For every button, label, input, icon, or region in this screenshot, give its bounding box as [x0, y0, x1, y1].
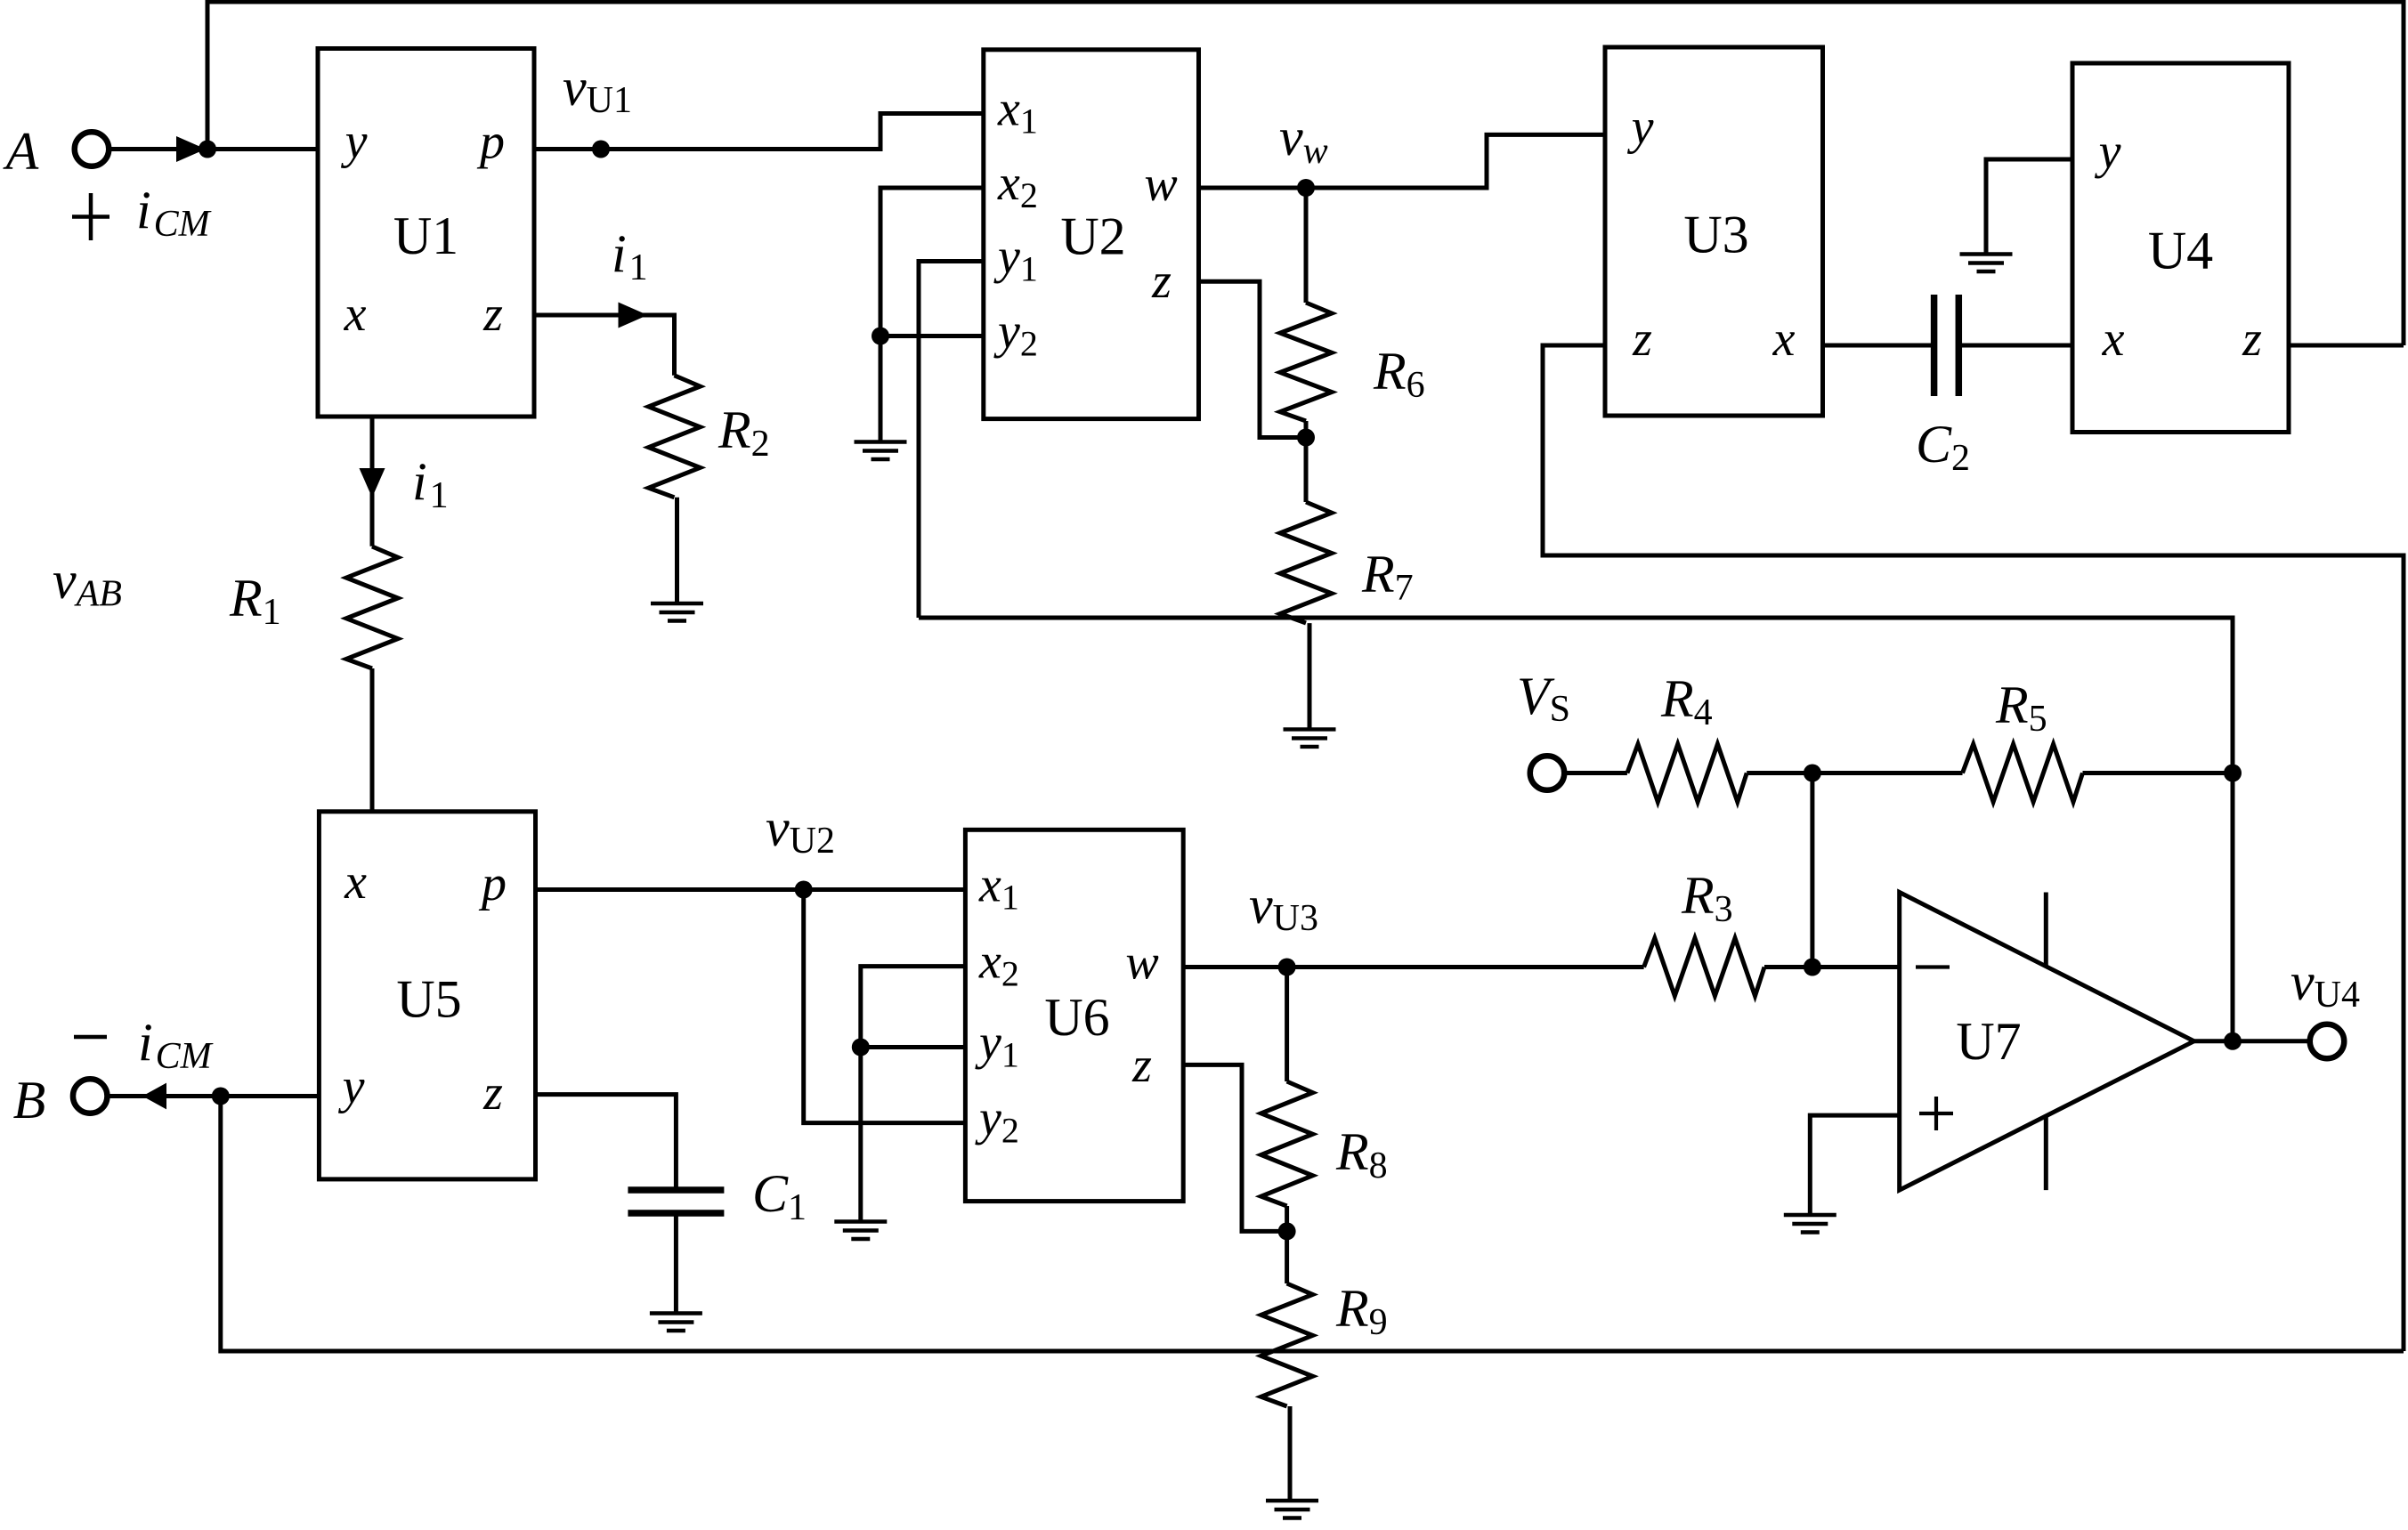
terminal B: [73, 1079, 108, 1113]
svg-text:U1: U1: [393, 206, 458, 265]
node vU2 junction dot: [795, 881, 813, 899]
wire U2 pin x2 to ground stem: [880, 188, 984, 442]
wire C1 to ground: [674, 1213, 678, 1314]
wire R4 to R4/R5 node: [1747, 771, 1812, 775]
wire U2 pin w to U3 pin y (node vw): [1199, 134, 1606, 188]
svg-text:x: x: [2102, 312, 2125, 367]
ground under R7: [1284, 729, 1336, 747]
resistor R8: [1261, 1081, 1313, 1206]
node R8/R9/U6z junction dot: [1278, 1222, 1296, 1240]
resistor R2: [649, 376, 701, 498]
wire U6 pin w to op-amp U7 inverting input (node vU3): [1183, 965, 1643, 969]
ground under U6 x2/y1: [834, 1222, 887, 1240]
wire junction to resistor R7: [1304, 438, 1309, 503]
svg-text:x: x: [1772, 312, 1796, 367]
ground under R9: [1266, 1501, 1318, 1518]
wire U3 pin x to capacitor C2: [1823, 344, 1934, 348]
ground under U7 non-inverting input: [1784, 1215, 1836, 1233]
wire U4 pin y to ground: [1986, 159, 2072, 255]
svg-text:U5: U5: [396, 969, 461, 1028]
svg-text:p: p: [478, 856, 507, 911]
wire U6 pin x2 to ground stem: [861, 967, 966, 1222]
node U6 y1/x2 junction dot: [852, 1039, 870, 1056]
node vU3 junction dot: [1278, 959, 1296, 976]
svg-text:x: x: [344, 287, 367, 342]
svg-text:y: y: [341, 114, 368, 169]
wire R4/R5 node to resistor R5: [1812, 771, 1963, 775]
node B junction dot: [212, 1088, 230, 1105]
wire R5 to feedback node: [2083, 771, 2234, 775]
op-amp block U1: [318, 49, 534, 417]
resistor R5: [1963, 744, 2083, 802]
resistor R6: [1280, 303, 1332, 421]
svg-text:z: z: [482, 1065, 503, 1121]
svg-text:z: z: [1632, 312, 1652, 367]
wire vU3 down to resistor R8: [1285, 967, 1289, 1082]
wire U1 pin z to resistor R2: [534, 315, 675, 376]
capacitor C2: [1934, 295, 1959, 396]
wire R2 to ground: [675, 498, 679, 603]
svg-text:U3: U3: [1683, 206, 1748, 264]
resistor R3: [1644, 938, 1764, 996]
wire U7 non-inverting input to ground: [1810, 1115, 1899, 1215]
wire R4/R5 node down to inverting input node: [1810, 773, 1814, 967]
wire R6 to junction with R7: [1304, 421, 1309, 438]
wire U1 pin x down to resistor R1: [370, 417, 375, 546]
wire U1 pin p to U2 pin x1 (node vU1): [534, 114, 984, 150]
wire R8 to R8/R9 junction: [1285, 1206, 1289, 1231]
svg-text:y: y: [2095, 125, 2121, 180]
op-amp block U3: [1605, 47, 1823, 416]
wire U6 pin y1 to ground stem: [861, 1045, 966, 1049]
node R6/R7/U2z junction dot: [1297, 429, 1315, 447]
wire U7 output to terminal vU4: [2194, 1039, 2310, 1043]
svg-text:z: z: [2242, 312, 2262, 367]
wire vw down to resistor R6: [1304, 188, 1309, 303]
svg-text:B: B: [13, 1071, 46, 1129]
svg-text:U7: U7: [1956, 1012, 2021, 1071]
svg-text:w: w: [1144, 157, 1177, 212]
label plus sign of vAB: [72, 193, 109, 240]
op-amp block U5: [319, 812, 535, 1179]
wire junction to resistor R9: [1285, 1231, 1289, 1283]
wire U5 pin z to capacitor C1: [536, 1095, 677, 1190]
node vw junction dot: [1297, 179, 1315, 197]
ground under R2: [651, 603, 703, 621]
op-amp block U4: [2072, 63, 2289, 433]
svg-text:A: A: [3, 122, 39, 181]
wire B junction down to bottom bus: [221, 1097, 2404, 1352]
svg-text:x: x: [344, 854, 367, 910]
terminal A: [75, 132, 109, 166]
arrow current iCM into U1: [176, 136, 206, 162]
svg-text:z: z: [1131, 1038, 1152, 1093]
op-amp block U6: [965, 830, 1183, 1201]
node A junction dot: [199, 141, 216, 158]
arrow current iCM out to B: [142, 1083, 166, 1110]
svg-text:z: z: [482, 287, 503, 342]
wire long feedback line to R5 right node: [919, 618, 2233, 1041]
arrow current i1 through z: [619, 303, 648, 328]
resistor R7: [1280, 502, 1332, 623]
wire R7 to ground: [1308, 623, 1312, 729]
terminal VS: [1530, 756, 1565, 790]
resistor R4: [1627, 744, 1747, 802]
op-amp U7 positive power pin: [2044, 893, 2048, 967]
svg-text:y: y: [338, 1059, 365, 1114]
svg-text:U6: U6: [1044, 988, 1109, 1047]
op-amp U7 negative power pin: [2044, 1116, 2048, 1190]
wire U2 pin y2 to ground stem: [880, 334, 984, 338]
wire U6 pin y2 to node vU2: [804, 890, 966, 1123]
wire R3 to U7 inverting input: [1764, 965, 1900, 969]
wire R1 to U5 pin x (top): [370, 668, 375, 812]
wire U5 pin y to terminal B: [108, 1094, 320, 1098]
arrow current i1 down: [360, 468, 385, 498]
label minus sign of vAB: [74, 1035, 107, 1040]
wire terminal A to U1 pin y: [109, 147, 319, 151]
resistor R9: [1261, 1283, 1313, 1406]
svg-text:p: p: [476, 115, 505, 170]
wire U6 pin z to R8/R9 junction: [1183, 1065, 1286, 1231]
wire VS to resistor R4: [1564, 771, 1627, 775]
wire U5 pin p to U6 pin x1 (node vU2): [536, 887, 966, 892]
ground under C1: [650, 1314, 702, 1332]
node R5/feedback junction dot: [2224, 765, 2242, 782]
op-amp U7 triangle: [1900, 893, 2194, 1191]
wire C2 to U4 pin x: [1958, 344, 2072, 348]
node U2 y2/x2 junction dot: [872, 328, 889, 345]
svg-text:z: z: [1151, 254, 1172, 309]
svg-text:w: w: [1125, 935, 1158, 991]
capacitor C1: [628, 1190, 724, 1213]
svg-text:U4: U4: [2148, 222, 2213, 280]
node vU1 junction dot: [592, 141, 610, 158]
wire U2 pin z to R6/R7 junction: [1199, 281, 1307, 437]
node R3/R4 junction dot: [1804, 959, 1821, 976]
wire U3 pin z to bottom bus (via right side): [1543, 345, 2404, 1351]
ground under U4 y: [1960, 255, 2013, 272]
ground under U2 x2/y2: [855, 442, 907, 460]
op-amp U7 plus sign: [1919, 1097, 1953, 1130]
wire top bus from A junction to top-right corner: [207, 2, 2404, 345]
wire R9 to ground: [1288, 1406, 1293, 1501]
op-amp block U2: [984, 50, 1199, 419]
op-amp U7 minus sign: [1916, 965, 1950, 968]
node R4/R5 junction dot: [1804, 765, 1821, 782]
resistor R1: [346, 546, 398, 668]
wire U2 pin y1 to feedback line: [919, 262, 984, 619]
terminal vU4: [2310, 1024, 2345, 1059]
wire U4 z output to right bus: [2289, 344, 2404, 348]
node U7 output junction dot: [2224, 1032, 2242, 1050]
svg-text:U2: U2: [1060, 207, 1125, 266]
svg-text:y: y: [1627, 100, 1654, 155]
